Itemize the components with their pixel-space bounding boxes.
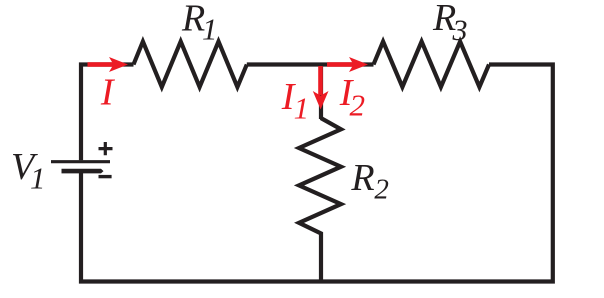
svg-text:I: I xyxy=(100,71,116,113)
svg-text:R: R xyxy=(350,157,374,199)
svg-text:2: 2 xyxy=(350,87,366,122)
svg-text:1: 1 xyxy=(202,12,218,47)
svg-text:3: 3 xyxy=(452,14,468,47)
svg-text:1: 1 xyxy=(294,91,310,126)
svg-text:1: 1 xyxy=(30,160,46,195)
svg-text:2: 2 xyxy=(374,173,389,205)
